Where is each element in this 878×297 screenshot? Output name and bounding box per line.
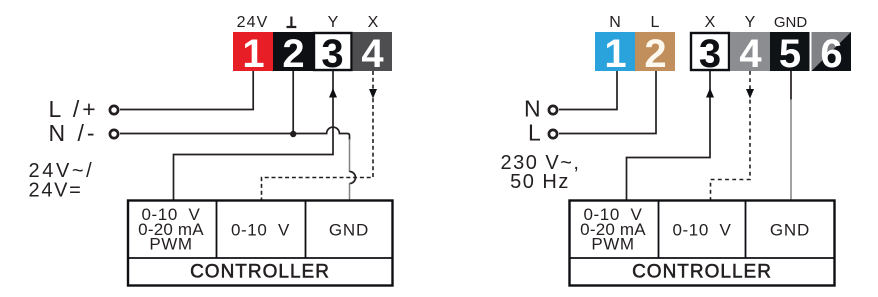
svg-text:0-10 V: 0-10 V: [672, 221, 731, 240]
svg-text:GND: GND: [770, 221, 810, 240]
wire hop over dashed X wire: [350, 172, 356, 184]
svg-text:PWM: PWM: [591, 235, 634, 254]
arrow down from terminal 4: [369, 89, 377, 99]
svg-text:0-10 V: 0-10 V: [231, 221, 290, 240]
terminal 2 (ground, black): [273, 32, 313, 76]
controller horizontal divider: [128, 257, 393, 259]
svg-text:3: 3: [321, 32, 343, 76]
controller cell divider 2 (right): [745, 201, 747, 259]
svg-text:24V: 24V: [237, 14, 269, 31]
terminal circle L: [110, 106, 118, 114]
svg-text:N /-: N /-: [49, 120, 98, 146]
wire terminal 4 (Y) to controller 0-10V (dashed): [711, 71, 751, 200]
controller box (right): [570, 201, 835, 286]
wire N to terminal 1: [559, 71, 617, 110]
terminal 4 (Y, grey): [730, 32, 770, 76]
junction dot: [290, 131, 296, 137]
terminal circle L: [549, 130, 557, 138]
wire L to terminal 2: [559, 71, 656, 134]
svg-text:X: X: [705, 14, 716, 31]
wire N to controller GND (with hop over Y wire): [120, 127, 350, 140]
svg-text:PWM: PWM: [149, 235, 192, 254]
wire terminal 4 (X) to controller 0-10V (dashed): [262, 71, 374, 200]
terminal 3 (X, white): [691, 32, 729, 76]
wire terminal 2 down to N wire: [292, 71, 294, 134]
svg-text:50 Hz: 50 Hz: [510, 171, 570, 193]
wire controller PWM to terminal 3 (X): [627, 71, 711, 200]
terminal 3 (Y, white): [314, 32, 352, 76]
terminal 1 (N, blue): [595, 32, 635, 76]
wire N vertical grey segment upper: [349, 139, 351, 172]
terminal 2 (L, tan): [635, 32, 675, 76]
terminal label ground symbol: [287, 17, 297, 28]
arrow up into terminal 3: [706, 88, 714, 98]
svg-text:4: 4: [361, 32, 384, 76]
controller cell divider 2: [305, 201, 307, 259]
controller cell divider 1 (right): [658, 201, 660, 259]
wire terminal 5 (GND) grey lower segment: [790, 99, 792, 200]
svg-text:1: 1: [604, 32, 626, 76]
svg-text:GND: GND: [774, 14, 808, 31]
cell label 0-10 V / 0-20 mA / PWM: [138, 205, 204, 254]
svg-text:N: N: [609, 14, 621, 31]
svg-text:N: N: [524, 96, 541, 122]
wire N vertical grey segment lower: [349, 183, 351, 200]
svg-text:CONTROLLER: CONTROLLER: [190, 262, 330, 283]
arrow down from terminal 4: [746, 89, 754, 99]
wire controller PWM to terminal 3 (Y): [174, 71, 334, 200]
svg-text:24V=: 24V=: [29, 180, 83, 202]
wire L to terminal 1: [120, 71, 253, 110]
svg-text:Y: Y: [328, 14, 339, 31]
svg-text:L: L: [651, 14, 660, 31]
terminal 6 (diagonal grey/black): [812, 32, 852, 76]
arrow up into terminal 3: [329, 88, 337, 98]
svg-text:X: X: [368, 14, 379, 31]
terminal 4 (X, dark grey): [353, 32, 393, 76]
svg-text:GND: GND: [329, 221, 369, 240]
svg-text:Y: Y: [745, 14, 756, 31]
svg-text:1: 1: [242, 32, 264, 76]
svg-text:L: L: [528, 120, 541, 146]
cell label 0-10 V / 0-20 mA / PWM (right): [580, 205, 646, 254]
svg-text:2: 2: [644, 32, 666, 76]
svg-text:3: 3: [699, 32, 721, 76]
terminal circle N: [549, 106, 557, 114]
svg-text:6: 6: [820, 32, 842, 76]
terminal circle N: [110, 130, 118, 138]
wire terminal 5 (GND) black upper segment: [790, 71, 792, 100]
svg-text:5: 5: [779, 32, 801, 76]
terminal 1 (24V, red): [233, 32, 273, 76]
svg-text:4: 4: [739, 32, 762, 76]
controller box: [128, 201, 393, 286]
terminal 5 (GND, black): [770, 32, 810, 76]
svg-text:L /+: L /+: [49, 96, 99, 122]
svg-text:2: 2: [282, 32, 304, 76]
controller horizontal divider (right): [570, 257, 835, 259]
svg-text:CONTROLLER: CONTROLLER: [632, 262, 772, 283]
controller cell divider 1: [216, 201, 218, 259]
